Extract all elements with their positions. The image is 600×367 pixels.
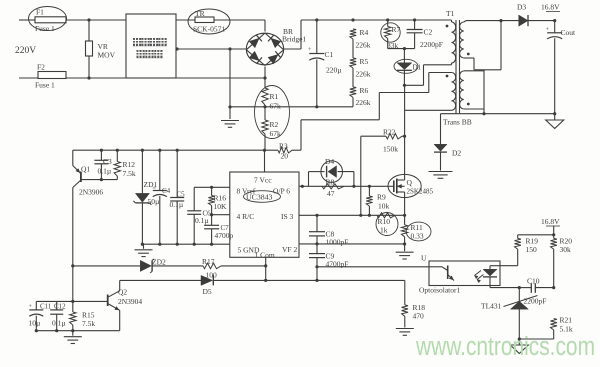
ellipse R11 [406,222,431,241]
resistor R16 [208,196,214,206]
svg-text:C12: C12 [54,303,66,311]
svg-text:R21: R21 [560,316,573,325]
wire: filter mid to bridge left [176,48,246,50]
svg-text:220V: 220V [15,46,36,56]
fuse F2 [38,72,66,79]
svg-text:50µ: 50µ [148,197,161,206]
wire: VR drop [88,20,90,41]
svg-text:10K: 10K [214,202,228,211]
ground bottom left [72,331,74,336]
transformer T1 core [455,20,457,114]
svg-text:16.8V: 16.8V [541,217,560,226]
wire: source vertical [404,198,406,225]
svg-text:1 Com: 1 Com [255,251,275,260]
svg-text:R17: R17 [202,257,215,266]
wire: bridge bottom to minus rail [264,67,266,89]
capacitor C12 [56,301,58,310]
svg-text:30k: 30k [560,245,572,254]
svg-text:150: 150 [526,245,538,254]
wire: analog ground rail [142,243,229,245]
svg-text:R22: R22 [383,128,396,137]
T1 primary upper winding [452,22,456,63]
capacitor Cout [554,21,556,33]
svg-text:470: 470 [413,312,425,321]
svg-text:C5: C5 [177,191,186,199]
diode D5 [201,275,213,285]
svg-text:C1: C1 [325,50,334,59]
wire: Vcc feed from aux tap [429,72,452,74]
wire: secondary return rail [441,113,555,115]
svg-text:VF 2: VF 2 [282,245,297,254]
capacitor C8 [316,215,318,231]
wire: DC+ top rail [301,19,452,21]
svg-text:67k: 67k [270,102,282,111]
svg-text:C10: C10 [527,277,540,286]
svg-text:7.5k: 7.5k [82,319,95,328]
svg-text:R8: R8 [326,178,335,187]
wire: com line D5 [120,279,201,281]
svg-text:C4: C4 [162,187,171,195]
UC3843 box U1 [230,172,299,257]
wire: AC line N bottom [19,77,38,79]
svg-text:R1: R1 [270,92,279,101]
resistor R8 [322,184,344,189]
resistor R10 [377,213,395,218]
capacitor C7 [211,215,213,226]
svg-text:0.1µ: 0.1µ [195,216,209,225]
svg-text:150k: 150k [383,145,398,154]
zener ZD2 [140,260,151,271]
svg-text:+: + [308,47,312,53]
T1 secondary upper winding [460,22,464,58]
T1 secondary lower winding [460,71,464,109]
svg-text:1k: 1k [380,226,388,235]
resistor R4 [350,29,356,39]
resistor R17 [203,263,221,269]
diode D2 [440,114,442,145]
svg-text:C11: C11 [40,303,52,311]
svg-text:Q1: Q1 [81,165,90,174]
wire: bottom left rail [36,330,119,332]
label UC3843 [244,191,281,203]
svg-text:TL431: TL431 [481,302,502,311]
svg-text:U: U [421,254,427,263]
svg-text:Fuse 1: Fuse 1 [35,81,55,90]
diode D4 loop [308,172,310,187]
label filter text line2 [137,50,145,58]
svg-text:20: 20 [281,152,289,161]
ground hollow triangle at Cout [554,114,556,120]
bridge rectifier BR Bridge1 [246,33,283,65]
resistor R21 [551,319,557,331]
capacitor C11 [35,301,37,310]
opto LED [490,265,500,267]
wire: pin6 gate line [299,185,388,187]
ground under D2 [429,171,453,173]
wire: secondary bottom lead [464,108,484,110]
resistor R19 [517,235,519,239]
svg-text:0.1µ: 0.1µ [170,200,184,209]
wire: filter bottom rail [176,77,265,79]
zener ZD1 [141,150,143,193]
capacitor C4 [159,150,161,190]
svg-text:R3: R3 [279,142,288,151]
wire: IS line [299,214,405,216]
T1 polarity dots [446,25,449,28]
wire: led cathode to tl431 [489,286,491,288]
ground under ZD1 rail [143,244,145,249]
fuse F1 [35,17,66,23]
wire: q1 collector to base node [72,266,74,312]
svg-text:IS 3: IS 3 [281,212,294,221]
ground under R11 [404,244,406,251]
wire: drain vertical [404,85,406,174]
svg-text:D2: D2 [452,149,461,158]
svg-text:SCK-0571: SCK-0571 [193,25,225,34]
wire: q2 base line [73,300,108,302]
resistor R7 [387,20,389,27]
svg-text:R2: R2 [270,120,279,129]
resistor R9 [368,186,370,196]
svg-text:220µ: 220µ [326,66,342,75]
svg-text:2200pF: 2200pF [524,297,547,306]
wire: 16.8V node down [553,226,555,238]
svg-text:MOV: MOV [98,51,116,60]
varistor VR MOV [86,41,93,56]
svg-text:+: + [29,304,33,310]
svg-text:TR: TR [195,9,205,18]
wire: secondary staircase [500,21,502,70]
capacitor C10 [530,283,532,293]
svg-text:0.33: 0.33 [411,232,424,241]
resistor R20 [551,238,557,249]
svg-text:0.1µ: 0.1µ [52,319,66,328]
wire: pin1 com vertical [265,257,267,280]
resistor R6 [352,68,354,87]
wire: c11 c12 top rail [36,300,73,302]
label filter text line1 [133,38,141,46]
svg-text:D1: D1 [413,64,422,72]
svg-text:4 R/C: 4 R/C [237,212,255,221]
thermistor TR [195,17,214,23]
svg-text:R12: R12 [123,160,136,169]
svg-text:Cout: Cout [561,28,577,37]
shunt regulator TL431 [518,288,520,302]
resistor R2 [262,120,268,134]
ground hollow triangle bottom right [518,339,520,345]
wire: DC- mid rail [230,106,353,108]
svg-text:Q: Q [407,178,413,187]
svg-text:Trans BB: Trans BB [443,118,472,127]
svg-text:ZD2: ZD2 [152,258,166,267]
Vcc rail y150 [73,149,278,151]
wire: R22 left vertical [360,136,362,215]
svg-text:R9: R9 [377,193,386,202]
wire: primary bottom lead [405,109,452,111]
wire: Vref line [194,186,230,188]
svg-text:16.8V: 16.8V [541,3,560,12]
wire: bridge right to DC+ rail [284,48,301,50]
wire: filter to TR [176,19,195,21]
wire: clamp node to winding tap [403,84,406,87]
wire: VF line [299,243,405,245]
svg-text:2N3906: 2N3906 [79,188,103,197]
resistor R3 [278,147,292,153]
svg-text:2SK2485: 2SK2485 [407,188,434,196]
svg-text:2N3904: 2N3904 [118,297,142,306]
wire: TR to bridge top [214,19,265,21]
svg-text:T1: T1 [446,9,455,18]
transistor Q2 [107,295,109,307]
svg-text:Q2: Q2 [118,288,127,297]
svg-text:D5: D5 [203,287,212,296]
svg-text:D3: D3 [517,3,526,12]
opto phototransistor [447,266,449,280]
resistor R1 [262,88,268,105]
capacitor C1 [316,20,318,54]
svg-text:R7: R7 [392,25,401,34]
capacitor C6 [193,187,195,211]
capacitor C5 [176,150,178,197]
wire: RC line [212,214,230,216]
diode D1 [403,49,405,63]
svg-text:Bridge1: Bridge1 [282,35,306,44]
svg-text:Optoisolator1: Optoisolator1 [419,286,460,295]
svg-text:R6: R6 [360,86,369,95]
svg-text:0.1µ: 0.1µ [98,167,112,176]
diode D3 [519,15,528,26]
mosfet Q 2SK2485 [388,174,421,197]
svg-text:4700p: 4700p [215,231,234,240]
wire: to R19 [518,234,554,236]
svg-text:2200pF: 2200pF [420,40,443,49]
svg-text:C2: C2 [424,28,433,37]
opto light arrows [475,271,482,276]
svg-text:C3: C3 [103,157,112,166]
T1 primary lower winding [452,73,456,111]
wire: com line to R18 [266,279,405,281]
svg-text:O/P 6: O/P 6 [273,187,290,196]
svg-text:R5: R5 [360,57,369,66]
wire: secondary top lead [464,21,466,22]
svg-text:+: + [546,27,550,33]
resistor R22 [361,135,386,137]
svg-text:10k: 10k [378,202,390,211]
wire: zd2 r17 line [73,265,141,267]
svg-text:47: 47 [327,189,335,198]
svg-text:1000pF: 1000pF [326,238,349,247]
capacitor C3 [100,150,102,160]
svg-text:F2: F2 [37,63,45,72]
resistor R15 [70,312,76,325]
transistor Q1 [72,150,74,165]
svg-text:10µ: 10µ [29,319,42,328]
ellipse around R1 R2 [255,86,290,139]
wire: x230 vertical [229,49,231,107]
resistor R11 [401,225,407,237]
svg-text:226k: 226k [356,41,371,50]
resistor R5 [352,39,354,58]
diode D4 [328,166,337,178]
EMI filter box [126,14,176,78]
svg-text:D4: D4 [325,157,334,166]
svg-text:Fuse 1: Fuse 1 [35,24,55,33]
wire: opto collector line [317,266,429,268]
capacitor C2 [414,20,416,30]
svg-text:7.5k: 7.5k [123,169,136,178]
wire: snubber bottom [388,48,415,50]
wire: com line riser [316,267,318,281]
svg-text:226k: 226k [356,70,371,79]
svg-text:226k: 226k [356,98,371,107]
svg-text:F1: F1 [36,8,44,17]
svg-text:8 Vref: 8 Vref [237,187,256,196]
svg-text:7 Vcc: 7 Vcc [254,176,272,185]
resistor R18 [404,280,406,305]
ground near bridge [229,107,231,119]
resistor R12 [116,150,118,161]
svg-text:www.cntronics.com: www.cntronics.com [415,333,595,361]
capacitor C9 [316,244,318,254]
ground under R18 [396,328,414,330]
svg-text:R4: R4 [360,28,369,37]
optoisolator U box [429,261,500,286]
wire: pin7 Vcc to rail [264,150,266,172]
wire: AC line L top [19,19,35,21]
